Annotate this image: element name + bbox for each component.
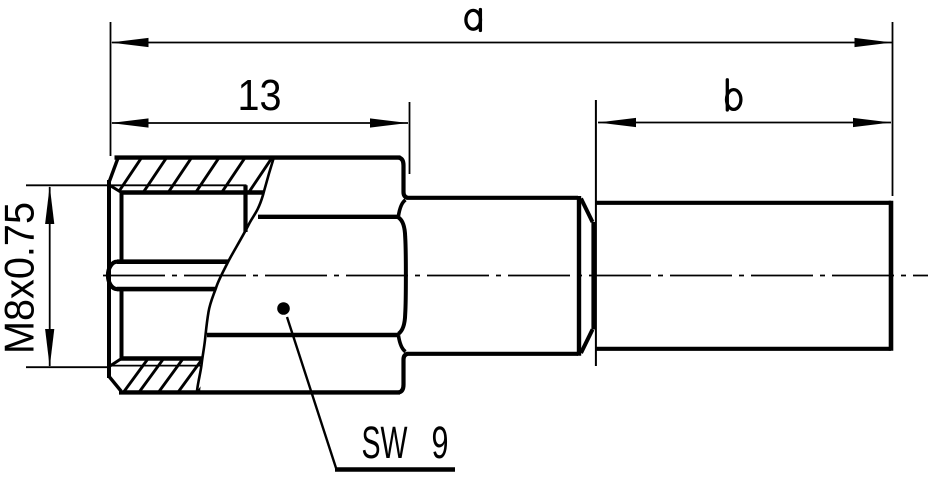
contact socket slot top line: [117, 259, 229, 264]
hex face edge bottom (y=335): [207, 333, 399, 337]
second cylinder top line: [595, 201, 891, 205]
arrow b right: [853, 118, 891, 127]
hex right end: upper cusp arc: [398, 200, 405, 216]
hex bottom-left chamfer: [110, 377, 122, 391]
SW 9 leader line: [287, 317, 337, 470]
svg-text:SW: SW: [362, 417, 408, 468]
dimension line a: [112, 42, 892, 44]
break-out section freehand curve: [197, 157, 274, 391]
thread crest thin line bottom: [108, 365, 202, 367]
thread end vertical: [243, 185, 247, 232]
label b: [727, 90, 741, 110]
svg-text:M8x0.75: M8x0.75: [0, 202, 43, 354]
contact socket rounded cap: [108, 262, 117, 289]
arrow M8 bottom: [45, 329, 54, 367]
SW 9 leader dot: [277, 302, 290, 315]
hex body top edge: [115, 155, 401, 159]
hex right end: top corner arc and end face: [399, 158, 408, 198]
first cylinder end face: [577, 196, 581, 356]
arrow a right: [855, 38, 893, 47]
arrow 13 right: [370, 118, 408, 127]
extension line M8 bottom: [26, 366, 108, 368]
first cylinder bottom line: [407, 352, 579, 356]
extension line left of b: [595, 100, 597, 366]
second cylinder right end face: [889, 201, 894, 351]
neck chamfer bottom: [581, 330, 593, 354]
second cylinder bottom line: [595, 347, 891, 351]
hex body bottom edge: [119, 390, 400, 394]
hex right end: lower cusp arc: [398, 335, 405, 351]
centerline: [103, 275, 928, 277]
thread entry chamfer bottom: [110, 359, 122, 367]
thread crest thin line top + M8 extension: [26, 184, 247, 186]
hatch lines bottom band: [122, 356, 225, 395]
hex right end: middle face chamfer arc: [398, 217, 405, 333]
bore line top (thick): [121, 190, 265, 195]
extension line left (a and 13): [110, 22, 112, 156]
label a: [466, 10, 481, 29]
arrow 13 left: [111, 118, 149, 127]
first cylinder top line: [407, 196, 579, 200]
svg-text:9: 9: [432, 417, 449, 468]
neck chamfer top: [581, 199, 593, 223]
bore line bottom (thick): [121, 356, 204, 361]
extension line right of 13: [409, 102, 411, 174]
dimension line M8x0.75 (vertical): [49, 187, 51, 366]
SW 9 leader underline: [335, 467, 455, 471]
svg-text:13: 13: [238, 71, 282, 120]
extension line right (a and b): [892, 22, 894, 196]
arrow a left: [111, 38, 149, 47]
hex left face: [107, 180, 111, 378]
dimension line 13: [112, 122, 408, 124]
neck junction vertical: [591, 222, 595, 330]
inner face vertical upper: [120, 193, 124, 260]
contact socket slot bottom line: [117, 287, 215, 292]
dimension line b: [598, 122, 891, 124]
inner face vertical lower: [120, 291, 124, 359]
hatch lines top band: [117, 154, 275, 195]
arrow b left: [598, 118, 636, 127]
arrow M8 top: [45, 186, 54, 224]
thread entry chamfer top: [110, 186, 122, 193]
hex right end: bottom end face and corner arc: [399, 354, 408, 393]
hex top-left chamfer: [110, 158, 119, 181]
hex face edge top (y=216.8): [258, 215, 399, 219]
